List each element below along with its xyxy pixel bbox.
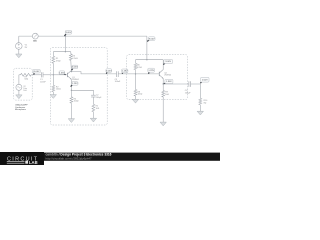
resistor R2	[52, 85, 55, 92]
label Vmic	[23, 86, 27, 92]
wire V1 bottom	[18, 49, 20, 54]
wire C3 to Q2 base	[118, 73, 159, 75]
wire emitter to Cout	[163, 83, 189, 85]
ground Vmic	[16, 95, 22, 99]
label C4	[185, 90, 191, 94]
junction supply stage2	[146, 59, 147, 60]
svg-text:1.23V: 1.23V	[72, 83, 78, 85]
junction emitter bypass	[71, 90, 72, 91]
node tag Q2 base	[148, 68, 155, 74]
ground RL	[197, 111, 203, 115]
svg-text:5.03V: 5.03V	[72, 67, 78, 69]
resistor R3 collector	[69, 54, 72, 61]
svg-text:100µF: 100µF	[185, 92, 191, 94]
svg-text:1.29V: 1.29V	[148, 70, 154, 72]
ground R2	[50, 95, 56, 99]
svg-text:100µF: 100µF	[96, 97, 102, 99]
resistor R9 emitter	[162, 91, 165, 98]
svg-text:LAB: LAB	[29, 160, 38, 165]
svg-text:100Ω: 100Ω	[74, 101, 79, 103]
svg-text:100nF: 100nF	[40, 81, 46, 83]
wire R8 bottom	[135, 96, 137, 99]
ground Q2 emitter	[160, 122, 166, 126]
wire Q1 emitter down	[70, 80, 72, 97]
node tag out1	[106, 69, 112, 74]
wire Q2 emitter down	[162, 78, 164, 90]
label Q1	[72, 77, 79, 81]
svg-text:0.00V: 0.00V	[202, 79, 208, 81]
wire Vmic corner	[19, 74, 21, 76]
svg-text:50Ω: 50Ω	[24, 79, 28, 81]
resistor R6	[134, 63, 137, 69]
label R3	[72, 56, 78, 60]
svg-text:47kΩ: 47kΩ	[56, 61, 61, 63]
capacitor C3 coupling	[117, 71, 119, 77]
wire V1 top	[18, 36, 20, 43]
node tag in2	[122, 69, 129, 74]
label R8	[138, 91, 143, 95]
dashed box amplifier stage 1	[50, 47, 107, 125]
resistor Rmic	[21, 73, 32, 76]
svg-text:9.00V: 9.00V	[149, 38, 155, 40]
junction Q1 collector	[71, 71, 72, 72]
label AM1	[33, 40, 37, 43]
label R9	[165, 92, 169, 96]
wire to bypass branch	[71, 90, 93, 95]
dashed box microphone model	[14, 68, 33, 100]
junction feed split	[65, 51, 66, 52]
node tag Q1 emitter	[71, 82, 79, 87]
node tag vout	[200, 77, 209, 83]
logo lines	[7, 161, 28, 164]
wire supply drop stage1	[64, 36, 66, 52]
svg-text:0.00V: 0.00V	[34, 71, 40, 73]
svg-text:10kΩ: 10kΩ	[138, 94, 143, 96]
svg-text:100nF: 100nF	[115, 81, 121, 83]
wire to Q1 base	[53, 74, 67, 76]
label R10	[204, 100, 209, 104]
wire RC to collector	[70, 60, 73, 71]
svg-text:Microphone: Microphone	[15, 108, 27, 111]
resistor R4 emitter	[70, 97, 73, 103]
label R6	[137, 65, 142, 69]
junction Q2 base node	[135, 73, 136, 74]
label R5	[96, 106, 100, 110]
footer logo box	[0, 152, 44, 165]
wire Vmic top	[18, 75, 20, 85]
junction Q2 emitter	[163, 83, 164, 84]
svg-text:9.00V: 9.00V	[165, 61, 171, 63]
node tag 9.00V rail	[64, 31, 71, 37]
svg-text:1.96V: 1.96V	[166, 81, 172, 83]
label Q2	[164, 72, 171, 76]
AC source Vmic	[16, 84, 22, 90]
wire R9 to ground	[162, 97, 164, 122]
wire R4 to ground	[70, 103, 72, 119]
transistor Q2 2N3904	[159, 70, 163, 79]
label V1 9V	[25, 45, 28, 49]
wire Vmic bottom	[18, 90, 20, 95]
resistor R1	[52, 56, 55, 63]
wire Cout to RL	[191, 84, 201, 98]
label C1	[40, 79, 46, 83]
svg-text:1.35V: 1.35V	[59, 72, 65, 74]
footer caption bar	[44, 153, 220, 161]
svg-text:1kΩ: 1kΩ	[165, 94, 169, 96]
resistor R8	[134, 90, 137, 97]
svg-text:http://circuitlab.com/c/2852jd: http://circuitlab.com/c/2852jdy6ph47	[46, 156, 93, 160]
svg-text:47kΩ: 47kΩ	[137, 67, 142, 69]
wire Cin to base node	[43, 74, 53, 76]
svg-text:10kΩ: 10kΩ	[56, 89, 61, 91]
svg-text:2.2kΩ: 2.2kΩ	[72, 58, 78, 60]
label microphone box	[15, 103, 28, 111]
label C3	[115, 79, 121, 83]
svg-text:9.00V: 9.00V	[66, 32, 72, 34]
svg-text:2N3904: 2N3904	[164, 75, 171, 77]
resistor R5 bypass	[92, 104, 95, 112]
wire R6 top	[135, 60, 137, 64]
ground bypass branch	[90, 118, 96, 122]
wire R2 bottom	[52, 92, 54, 95]
voltage source V1	[15, 43, 22, 50]
junction Q1 base node	[53, 74, 54, 75]
svg-text:1.29V: 1.29V	[122, 71, 128, 73]
wire base node to R2	[52, 75, 54, 86]
wire C2 to R5	[92, 97, 94, 104]
transistor Q1 2N3904	[67, 71, 71, 80]
ground Q1 emitter	[68, 119, 74, 123]
node tag Q1 collector	[72, 65, 79, 70]
wire Q1 collector stub	[70, 71, 72, 72]
wire RL bottom	[199, 105, 201, 111]
wire mic to Cin	[31, 74, 41, 76]
node tag Q2 collector	[163, 59, 172, 64]
capacitor C1 input coupling	[41, 72, 43, 77]
resistor R10 load	[199, 98, 202, 105]
capacitor C4 output	[189, 81, 191, 87]
dashed box output stage	[127, 55, 188, 100]
wire RC top	[70, 52, 72, 54]
label C2	[96, 95, 102, 99]
label R4	[74, 98, 79, 102]
wire Q2 collector	[162, 60, 164, 70]
wire R1 top	[52, 52, 54, 57]
wire base node to R8	[135, 74, 137, 90]
node tag Q1 base	[59, 71, 66, 75]
svg-text:10Ω: 10Ω	[96, 108, 100, 110]
capacitor C2 bypass	[91, 95, 96, 97]
wire stage2 rail	[136, 59, 164, 61]
label Rmic	[24, 76, 28, 80]
wire divider top	[53, 51, 71, 53]
wire supply drop right	[146, 36, 148, 60]
wire collector out to C2	[71, 72, 116, 74]
node tag mic output	[33, 69, 40, 74]
wire supply rail	[19, 35, 147, 37]
ammeter AM1	[32, 33, 38, 39]
ground V1	[16, 54, 22, 58]
wire R6 to base node	[135, 70, 137, 74]
svg-text:AM1: AM1	[33, 40, 37, 43]
node tag 9.00V right	[147, 37, 155, 42]
wire R5 to ground	[92, 112, 94, 118]
wire R1 to base node	[52, 63, 54, 75]
ground R8	[132, 99, 138, 103]
svg-text:2N3904: 2N3904	[72, 79, 79, 81]
label R1	[56, 58, 61, 62]
junction rail to stage1	[65, 35, 66, 36]
svg-text:5.03V: 5.03V	[106, 70, 112, 72]
label R2	[56, 86, 61, 90]
node tag Q2 emitter	[163, 79, 173, 84]
